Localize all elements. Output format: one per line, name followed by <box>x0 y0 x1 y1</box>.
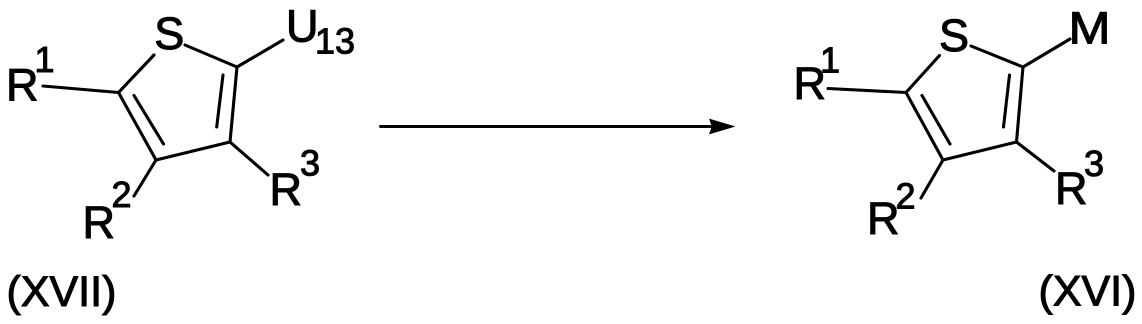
svg-text:R: R <box>1055 163 1088 214</box>
svg-text:3: 3 <box>1084 143 1104 184</box>
svg-text:2: 2 <box>112 174 132 215</box>
bond C2-C3 (left ring) <box>230 67 237 142</box>
bond S-C2 (left ring) <box>185 45 237 67</box>
svg-text:(XVII): (XVII) <box>7 268 117 316</box>
svg-text:R: R <box>270 164 303 215</box>
bond C2-M (right) <box>1023 39 1070 67</box>
bond C5-R1 (right) <box>828 89 906 93</box>
bond S-C5 (left ring) <box>119 55 155 93</box>
svg-text:R: R <box>83 197 116 248</box>
bond C3-R3 (left) <box>230 142 268 175</box>
double bond inner line C2=C3 (left ring) <box>217 75 223 127</box>
bond C5-R1 (left) <box>43 86 119 93</box>
bond C3-C4 (right ring) <box>943 142 1017 160</box>
svg-text:2: 2 <box>896 176 916 217</box>
bond C4-C5 (right ring) <box>906 93 943 161</box>
bond C4-R2 (left) <box>134 160 156 196</box>
bond S-C5 (right ring) <box>906 56 940 93</box>
svg-text:M: M <box>1069 3 1111 54</box>
reaction arrow shaft <box>381 125 715 128</box>
bond C2-C3 (right ring) <box>1017 67 1024 142</box>
svg-text:3: 3 <box>300 143 320 184</box>
bond C4-C5 (left ring) <box>119 93 157 161</box>
double bond inner line C4=C5 (right ring) <box>922 96 950 145</box>
svg-text:S: S <box>154 8 184 59</box>
svg-text:(XVI): (XVI) <box>1039 268 1137 316</box>
bond C2-U13 (left) <box>237 40 283 67</box>
bond C3-C4 (left ring) <box>156 142 230 160</box>
bond C3-R3 (right) <box>1017 142 1055 171</box>
double bond inner line C4=C5 (left ring) <box>134 96 164 145</box>
reaction arrow head <box>709 119 736 135</box>
svg-text:1: 1 <box>35 39 55 80</box>
svg-text:U: U <box>286 1 319 52</box>
bond C4-R2 (right) <box>921 160 943 198</box>
bond S-C2 (right ring) <box>971 46 1023 67</box>
double bond inner line C2=C3 (right ring) <box>1004 75 1010 127</box>
svg-text:1: 1 <box>820 40 840 81</box>
svg-text:13: 13 <box>315 21 355 62</box>
svg-text:S: S <box>939 10 969 61</box>
